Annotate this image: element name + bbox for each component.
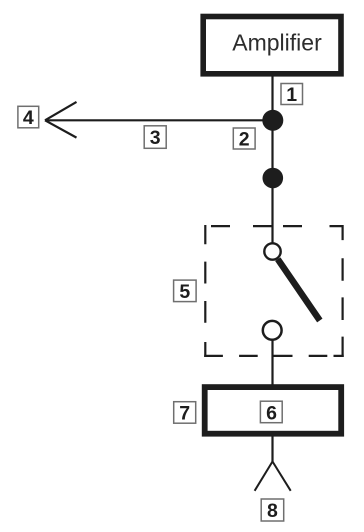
svg-text:2: 2: [239, 129, 250, 151]
svg-text:8: 8: [267, 500, 278, 522]
svg-text:6: 6: [266, 402, 277, 424]
svg-text:Amplifier: Amplifier: [232, 30, 322, 56]
svg-text:4: 4: [23, 107, 34, 129]
svg-text:3: 3: [150, 127, 161, 149]
svg-text:7: 7: [179, 403, 190, 425]
svg-text:5: 5: [179, 281, 190, 303]
svg-text:1: 1: [286, 84, 297, 106]
